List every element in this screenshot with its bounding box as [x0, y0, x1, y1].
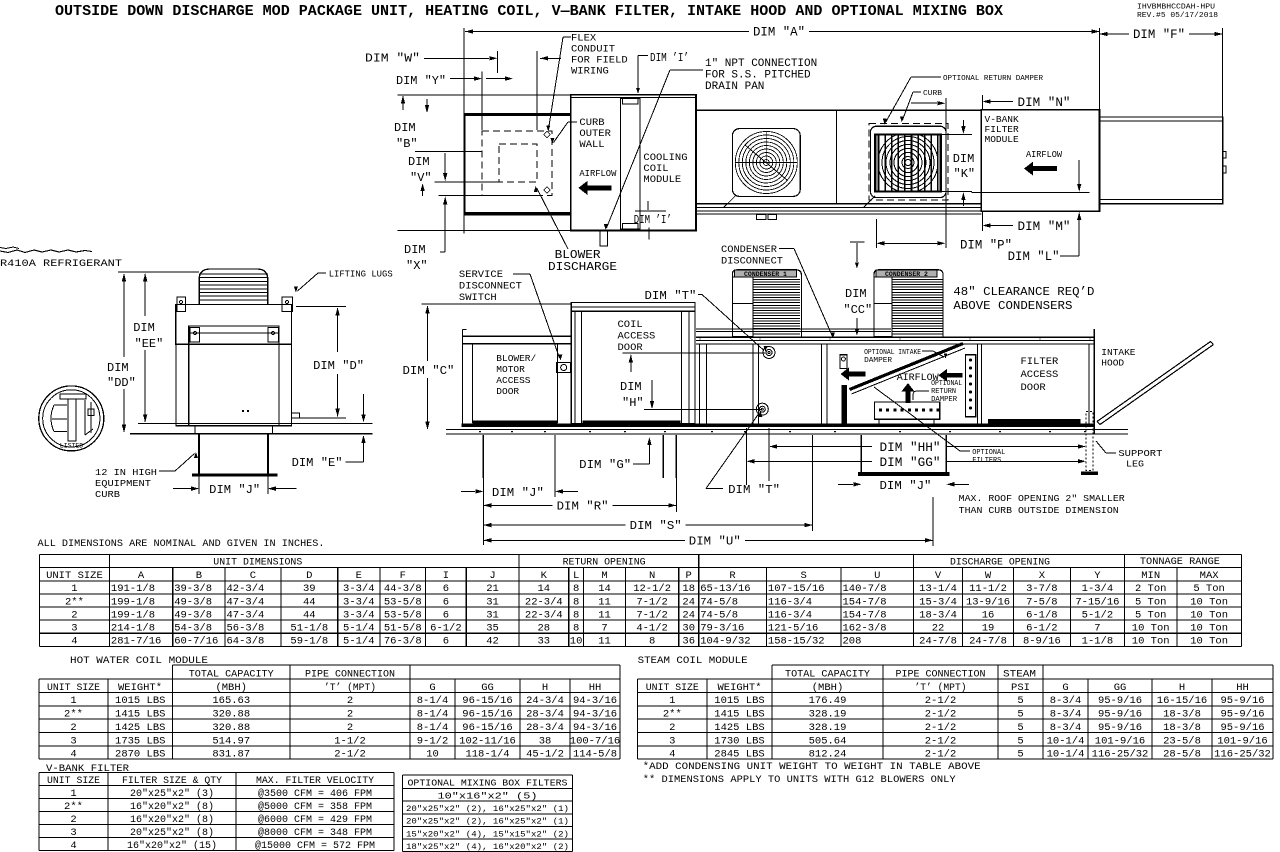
svg-text:3: 3: [71, 622, 77, 634]
svg-text:DISCHARGE: DISCHARGE: [548, 261, 617, 274]
svg-text:154-7/8: 154-7/8: [843, 609, 887, 621]
svg-text:Y: Y: [1094, 570, 1101, 582]
svg-text:5: 5: [1017, 722, 1023, 734]
svg-text:65-13/16: 65-13/16: [700, 583, 750, 595]
svg-text:WEIGHT*: WEIGHT*: [718, 682, 762, 694]
top view: dim N: [981, 95, 983, 110]
svg-text:28: 28: [537, 622, 550, 634]
svg-text:MODULE: MODULE: [985, 134, 1020, 145]
svg-text:116-3/4: 116-3/4: [768, 596, 812, 608]
top view: dim K: [941, 134, 972, 136]
svg-text:95-9/16: 95-9/16: [1220, 709, 1264, 721]
svg-text:101-9/16: 101-9/16: [1217, 735, 1267, 747]
svg-text:DIM ″GG″: DIM ″GG″: [880, 456, 941, 470]
svg-text:4-1/2: 4-1/2: [636, 622, 668, 634]
svg-text:TOTAL CAPACITY: TOTAL CAPACITY: [785, 668, 871, 680]
svg-text:UNIT SIZE: UNIT SIZE: [47, 682, 100, 694]
svg-text:505.64: 505.64: [809, 735, 847, 747]
svg-text:24: 24: [682, 609, 695, 621]
top view: dim B: [398, 94, 571, 96]
svg-text:PIPE CONNECTION: PIPE CONNECTION: [305, 668, 395, 680]
svg-text:2: 2: [70, 814, 76, 826]
svg-text:DIM: DIM: [408, 155, 430, 169]
svg-text:CONDENSER: CONDENSER: [721, 244, 778, 256]
svg-text:22-3/4: 22-3/4: [525, 596, 563, 608]
svg-text:THAN CURB OUTSIDE DIMENSION: THAN CURB OUTSIDE DIMENSION: [959, 505, 1119, 516]
svg-text:J: J: [489, 570, 495, 582]
top view: flex conduit diamonds: [544, 131, 551, 138]
end view: curb base plate: [192, 473, 277, 476]
top view: dim X: [439, 194, 540, 196]
svg-text:U: U: [874, 570, 880, 582]
svg-text:59-1/8: 59-1/8: [290, 635, 328, 647]
svg-text:214-1/8: 214-1/8: [111, 622, 155, 634]
svg-text:38: 38: [539, 735, 552, 747]
side view: grommet 1: [763, 347, 775, 359]
top view: main unit body: [696, 110, 981, 203]
svg-text:10: 10: [426, 749, 439, 761]
svg-text:DIM: DIM: [620, 380, 642, 394]
svg-text:DIM ″J″: DIM ″J″: [492, 486, 544, 500]
svg-text:96-15/16: 96-15/16: [462, 695, 512, 707]
svg-text:5-1/4: 5-1/4: [343, 622, 375, 634]
svg-text:HOOD: HOOD: [1101, 358, 1124, 369]
svg-text:SERVICE: SERVICE: [459, 269, 503, 281]
svg-text:DIM "F": DIM "F": [1133, 28, 1185, 42]
svg-text:CURB: CURB: [95, 489, 120, 500]
svg-text:@5000 CFM = 358 FPM: @5000 CFM = 358 FPM: [258, 801, 372, 813]
svg-text:1730 LBS: 1730 LBS: [714, 735, 764, 747]
svg-text:6: 6: [443, 635, 449, 647]
svg-text:L: L: [573, 570, 579, 582]
svg-text:TONNAGE RANGE: TONNAGE RANGE: [1140, 556, 1220, 568]
svg-text:54-3/8: 54-3/8: [174, 622, 212, 634]
svg-text:DISCONNECT: DISCONNECT: [721, 256, 783, 268]
svg-text:320.88: 320.88: [212, 709, 250, 721]
svg-text:21: 21: [486, 583, 499, 595]
svg-text:8-1/4: 8-1/4: [417, 722, 449, 734]
svg-text:FILTER: FILTER: [1021, 356, 1060, 368]
svg-text:76-3/8: 76-3/8: [384, 635, 422, 647]
svg-text:HH: HH: [589, 682, 602, 694]
svg-text:48″ CLEARANCE REQ’D: 48″ CLEARANCE REQ’D: [953, 286, 1094, 299]
svg-text:44: 44: [303, 609, 316, 621]
svg-text:3: 3: [669, 735, 675, 747]
svg-text:10 Ton: 10 Ton: [1190, 635, 1228, 647]
svg-text:3: 3: [70, 827, 76, 839]
svg-text:8: 8: [573, 622, 579, 634]
svg-text:DIM ″J″: DIM ″J″: [209, 483, 260, 497]
svg-text:1: 1: [70, 788, 76, 800]
top view: drain stubs: [757, 215, 766, 220]
svg-text:158-15/32: 158-15/32: [768, 635, 825, 647]
svg-text:UNIT SIZE: UNIT SIZE: [646, 682, 699, 694]
svg-text:199-1/8: 199-1/8: [111, 609, 155, 621]
svg-text:R: R: [729, 570, 736, 582]
svg-text:** DIMENSIONS APPLY TO UNITS W: ** DIMENSIONS APPLY TO UNITS WITH G12 BL…: [643, 774, 957, 786]
svg-text:2: 2: [669, 722, 675, 734]
svg-text:116-25/32: 116-25/32: [1214, 749, 1271, 761]
svg-text:IHVBMBHCCDAH-HPU: IHVBMBHCCDAH-HPU: [1137, 4, 1215, 12]
svg-text:DIM: DIM: [394, 121, 416, 135]
end view: dim DD: [123, 274, 125, 357]
svg-text:19: 19: [982, 622, 995, 634]
top view: dim A dimension line: [463, 28, 465, 233]
svg-text:SWITCH: SWITCH: [459, 292, 497, 304]
svg-text:D: D: [306, 570, 312, 582]
svg-text:X: X: [1039, 570, 1046, 582]
svg-text:ACCESS: ACCESS: [618, 331, 656, 343]
svg-text:2845 LBS: 2845 LBS: [714, 749, 764, 761]
svg-text:2: 2: [347, 709, 353, 721]
svg-text:DIM ″P″: DIM ″P″: [960, 239, 1012, 253]
svg-text:94-3/16: 94-3/16: [573, 722, 617, 734]
end view: dim EE: [118, 271, 199, 273]
svg-text:1425 LBS: 1425 LBS: [714, 722, 764, 734]
svg-text:10 Ton: 10 Ton: [1190, 622, 1228, 634]
svg-text:LISTED: LISTED: [60, 443, 84, 450]
side view: roof rail lines: [446, 428, 1128, 430]
side view: v-bank diagonal: [850, 344, 964, 390]
svg-text:812.24: 812.24: [809, 749, 847, 761]
svg-text:5-1/4: 5-1/4: [343, 635, 375, 647]
side view: curb legs below: [482, 435, 484, 478]
svg-text:OPTIONAL: OPTIONAL: [931, 380, 962, 388]
svg-text:″DD″: ″DD″: [107, 376, 136, 390]
svg-text:4: 4: [70, 749, 76, 761]
svg-text:6: 6: [443, 583, 449, 595]
svg-text:28-5/8: 28-5/8: [1163, 749, 1201, 761]
svg-text:1: 1: [70, 695, 76, 707]
svg-text:MOTOR: MOTOR: [496, 364, 525, 375]
svg-text:49-3/8: 49-3/8: [174, 609, 212, 621]
top view: dim M: [981, 211, 983, 231]
svg-text:1015 LBS: 1015 LBS: [115, 695, 165, 707]
svg-text:39: 39: [303, 583, 316, 595]
svg-text:R410A REFRIGERANT: R410A REFRIGERANT: [0, 258, 122, 270]
side view: v-bank left bar: [842, 385, 847, 427]
svg-text:DOOR: DOOR: [1021, 382, 1047, 394]
svg-text:42: 42: [486, 635, 499, 647]
svg-text:REV.#5 05/17/2018: REV.#5 05/17/2018: [1137, 12, 1218, 20]
svg-text:6-1/2: 6-1/2: [1026, 622, 1058, 634]
side view: condenser disconnect box: [840, 355, 847, 369]
svg-text:DIM ″G″: DIM ″G″: [579, 458, 631, 472]
svg-text:H: H: [542, 682, 548, 694]
svg-text:DIM ″T″: DIM ″T″: [728, 483, 780, 497]
svg-text:10 Ton: 10 Ton: [1132, 635, 1170, 647]
svg-text:79-3/16: 79-3/16: [700, 622, 744, 634]
top view: intake hood (plan): [1100, 117, 1223, 204]
svg-text:H: H: [1179, 682, 1185, 694]
side view: dim HH: [768, 428, 770, 481]
svg-text:95-9/16: 95-9/16: [1098, 709, 1142, 721]
svg-text:PSI: PSI: [1011, 682, 1030, 694]
svg-text:″H″: ″H″: [622, 396, 644, 410]
svg-text:M: M: [601, 570, 607, 582]
svg-text:DIM ″D″: DIM ″D″: [313, 359, 364, 373]
svg-text:CURB: CURB: [923, 90, 943, 98]
svg-text:DIM "A": DIM "A": [753, 26, 805, 40]
svg-text:24-3/4: 24-3/4: [526, 695, 564, 707]
side view: dim R: [675, 478, 677, 512]
svg-text:18″x25″x2″ (4), 16″x20″x2″ (2): 18″x25″x2″ (4), 16″x20″x2″ (2): [406, 842, 569, 852]
svg-text:DOOR: DOOR: [496, 386, 519, 397]
svg-text:INTAKE: INTAKE: [1101, 347, 1136, 358]
side view: intake hood side: [1093, 329, 1095, 434]
svg-text:31: 31: [486, 609, 499, 621]
svg-text:16: 16: [982, 609, 995, 621]
svg-text:UNIT SIZE: UNIT SIZE: [47, 775, 100, 787]
svg-text:33: 33: [537, 635, 550, 647]
svg-text:47-3/4: 47-3/4: [227, 596, 265, 608]
svg-text:44: 44: [303, 596, 316, 608]
svg-text:W: W: [985, 570, 992, 582]
svg-text:514.97: 514.97: [212, 735, 250, 747]
svg-text:1″ NPT CONNECTION: 1″ NPT CONNECTION: [705, 58, 817, 70]
end view: side tab: [292, 413, 300, 418]
side view: condenser 1: [732, 270, 801, 337]
svg-text:10 Ton: 10 Ton: [1190, 609, 1228, 621]
svg-text:2**: 2**: [64, 709, 83, 721]
top view: small curb dim: [911, 102, 937, 104]
svg-text:7-1/2: 7-1/2: [636, 609, 668, 621]
svg-text:STEAM: STEAM: [1003, 668, 1036, 680]
top view: curb dashed inner opening: [499, 144, 537, 182]
svg-text:47-3/4: 47-3/4: [227, 609, 265, 621]
svg-text:53-5/8: 53-5/8: [384, 609, 422, 621]
side view: right sections top band: [696, 336, 1094, 338]
svg-text:OPTIONAL INTAKE: OPTIONAL INTAKE: [864, 349, 921, 357]
svg-text:2-1/2: 2-1/2: [925, 735, 957, 747]
svg-text:OPTIONAL RETURN DAMPER: OPTIONAL RETURN DAMPER: [943, 75, 1043, 83]
top view: cooling coil slab: [621, 98, 640, 229]
svg-text:45-1/2: 45-1/2: [526, 749, 564, 761]
side view: dim U: [932, 497, 934, 546]
svg-text:1: 1: [669, 695, 675, 707]
end view: top box: [176, 305, 292, 345]
svg-text:1425 LBS: 1425 LBS: [115, 722, 165, 734]
svg-text:10: 10: [570, 635, 583, 647]
svg-text:8: 8: [649, 635, 655, 647]
svg-text:30: 30: [682, 622, 695, 634]
svg-text:7-5/8: 7-5/8: [1026, 596, 1058, 608]
svg-text:12 IN HIGH: 12 IN HIGH: [95, 467, 157, 478]
svg-text:PIPE CONNECTION: PIPE CONNECTION: [896, 668, 986, 680]
svg-text:8: 8: [573, 596, 579, 608]
svg-text:2**: 2**: [64, 801, 83, 813]
svg-text:154-7/8: 154-7/8: [843, 596, 887, 608]
end view: lug mid-right: [268, 328, 279, 342]
svg-text:16-15/16: 16-15/16: [1157, 695, 1207, 707]
side view: filter door bottom thick: [988, 419, 1081, 424]
svg-text:208: 208: [843, 635, 862, 647]
svg-text:199-1/8: 199-1/8: [111, 596, 155, 608]
svg-text:42-3/4: 42-3/4: [227, 583, 265, 595]
svg-text:102-11/16: 102-11/16: [459, 735, 516, 747]
svg-text:ACCESS: ACCESS: [496, 375, 531, 386]
top view: dim L: [1078, 160, 1080, 186]
svg-text:5-1/2: 5-1/2: [1082, 609, 1114, 621]
svg-text:2 Ton: 2 Ton: [1135, 583, 1167, 595]
svg-text:3-3/4: 3-3/4: [343, 609, 375, 621]
svg-text:MAX. ROOF OPENING 2″ SMALLER: MAX. ROOF OPENING 2″ SMALLER: [959, 493, 1125, 504]
svg-text:107-15/16: 107-15/16: [768, 583, 825, 595]
svg-text:DISCHARGE OPENING: DISCHARGE OPENING: [950, 557, 1050, 569]
svg-text:20″x25″x2″ (2), 16″x25″x2″ (1): 20″x25″x2″ (2), 16″x25″x2″ (1): [406, 804, 569, 814]
svg-text:*ADD CONDENSING UNIT WEIGHT TO: *ADD CONDENSING UNIT WEIGHT TO WEIGHT IN…: [643, 761, 981, 773]
svg-text:BLOWER/: BLOWER/: [496, 353, 536, 364]
svg-text:AIRFLOW: AIRFLOW: [579, 168, 616, 179]
svg-text:328.19: 328.19: [809, 722, 847, 734]
svg-text:DIM ″E″: DIM ″E″: [292, 456, 343, 470]
svg-text:1-3/4: 1-3/4: [1082, 583, 1114, 595]
svg-text:FILTER SIZE & QTY: FILTER SIZE & QTY: [122, 775, 223, 787]
svg-text:2: 2: [70, 722, 76, 734]
svg-text:@6000 CFM = 429 FPM: @6000 CFM = 429 FPM: [258, 814, 372, 826]
svg-text:24: 24: [682, 596, 695, 608]
svg-text:6: 6: [443, 596, 449, 608]
svg-text:DIM: DIM: [107, 361, 129, 375]
svg-text:18-3/8: 18-3/8: [1163, 709, 1201, 721]
svg-text:DIM ″S″: DIM ″S″: [630, 519, 682, 533]
svg-text:1735 LBS: 1735 LBS: [115, 735, 165, 747]
svg-text:9-1/2: 9-1/2: [417, 735, 449, 747]
svg-text:22: 22: [932, 622, 945, 634]
svg-text:6: 6: [443, 609, 449, 621]
svg-text:P: P: [686, 570, 692, 582]
svg-text:8-3/4: 8-3/4: [1050, 695, 1082, 707]
side view: dim J left (bottom chain): [482, 435, 484, 545]
svg-text:DIM ″HH″: DIM ″HH″: [880, 441, 941, 455]
svg-text:5: 5: [1017, 695, 1023, 707]
svg-text:UNIT SIZE: UNIT SIZE: [46, 570, 103, 582]
svg-text:95-9/16: 95-9/16: [1220, 695, 1264, 707]
svg-text:1: 1: [71, 583, 77, 595]
svg-text:2-1/2: 2-1/2: [334, 749, 366, 761]
svg-text:DAMPER: DAMPER: [864, 357, 893, 365]
svg-text:7: 7: [601, 622, 607, 634]
svg-text:95-9/16: 95-9/16: [1220, 722, 1264, 734]
side view: rivet dots: [479, 431, 481, 433]
svg-text:94-3/16: 94-3/16: [573, 695, 617, 707]
svg-text:WALL: WALL: [579, 139, 604, 151]
svg-text:UNIT DIMENSIONS: UNIT DIMENSIONS: [213, 557, 302, 569]
svg-text:5 Ton: 5 Ton: [1135, 609, 1167, 621]
svg-text:328.19: 328.19: [809, 709, 847, 721]
svg-text:2-1/2: 2-1/2: [925, 709, 957, 721]
svg-text:11: 11: [598, 609, 611, 621]
svg-text:94-3/16: 94-3/16: [573, 709, 617, 721]
svg-text:TOTAL CAPACITY: TOTAL CAPACITY: [189, 668, 275, 680]
svg-text:165.63: 165.63: [212, 695, 250, 707]
svg-text:DIM ″U″: DIM ″U″: [689, 534, 741, 548]
svg-text:6-1/8: 6-1/8: [1026, 609, 1058, 621]
svg-text:1015 LBS: 1015 LBS: [714, 695, 764, 707]
svg-text:31: 31: [486, 596, 499, 608]
svg-text:15″x20″x2″ (4), 15″x15″x2″ (2): 15″x20″x2″ (4), 15″x15″x2″ (2): [406, 829, 569, 839]
end view: dim D: [296, 305, 346, 307]
svg-text:191-1/8: 191-1/8: [111, 583, 155, 595]
svg-text:23-5/8: 23-5/8: [1163, 735, 1201, 747]
svg-text:C: C: [250, 570, 256, 582]
top view: dim V: [415, 151, 483, 153]
svg-text:’T’ (MPT): ’T’ (MPT): [915, 682, 967, 694]
svg-text:96-15/16: 96-15/16: [462, 709, 512, 721]
svg-text:DIM ″N″: DIM ″N″: [1018, 96, 1071, 110]
ETL listed logo: [39, 386, 104, 451]
svg-text:2-1/2: 2-1/2: [925, 695, 957, 707]
svg-text:N: N: [649, 570, 655, 582]
svg-text:F: F: [400, 570, 406, 582]
svg-text:FOR S.S. PITCHED: FOR S.S. PITCHED: [705, 70, 811, 82]
side view: condenser 2: [874, 270, 943, 337]
svg-text:S: S: [801, 570, 807, 582]
svg-text:DIM ″R″: DIM ″R″: [557, 499, 609, 513]
svg-text:11-1/2: 11-1/2: [969, 583, 1007, 595]
top view: curb box (thick): [464, 113, 571, 116]
svg-text:74-5/8: 74-5/8: [700, 609, 738, 621]
svg-text:2: 2: [347, 722, 353, 734]
top view: dim P: [875, 219, 877, 248]
svg-text:RETURN: RETURN: [931, 388, 956, 396]
svg-text:″EE″: ″EE″: [135, 337, 164, 351]
svg-text:G: G: [429, 682, 435, 694]
svg-text:24-7/8: 24-7/8: [969, 635, 1007, 647]
svg-text:AIRFLOW: AIRFLOW: [1026, 149, 1062, 160]
svg-text:G: G: [1062, 682, 1068, 694]
svg-text:118-1/4: 118-1/4: [465, 749, 509, 761]
svg-text:10-1/4: 10-1/4: [1047, 735, 1085, 747]
svg-text:281-7/16: 281-7/16: [111, 635, 161, 647]
svg-text:1415 LBS: 1415 LBS: [115, 709, 165, 721]
end view: lifting lug top-right: [282, 297, 292, 312]
end view: lug mid-left: [190, 328, 200, 342]
top view: condenser fan 1: [732, 129, 800, 197]
end view: dim E: [363, 394, 365, 421]
svg-text:8-1/4: 8-1/4: [417, 709, 449, 721]
svg-text:WIRING: WIRING: [571, 66, 609, 78]
end view: inner box: [189, 326, 279, 426]
svg-text:56-3/8: 56-3/8: [227, 622, 265, 634]
svg-text:8-9/16: 8-9/16: [1023, 635, 1061, 647]
top view: curb dashed outer opening: [482, 131, 552, 195]
svg-text:60-7/16: 60-7/16: [174, 635, 218, 647]
svg-text:1-1/8: 1-1/8: [1082, 635, 1114, 647]
svg-text:DIM: DIM: [133, 321, 155, 335]
svg-text:2870 LBS: 2870 LBS: [115, 749, 165, 761]
svg-text:5: 5: [1017, 749, 1023, 761]
side view: grommet 2: [756, 403, 768, 415]
svg-text:SUPPORT: SUPPORT: [1118, 448, 1162, 459]
svg-text:51-5/8: 51-5/8: [384, 622, 422, 634]
svg-text:OPTIONAL MIXING BOX FILTERS: OPTIONAL MIXING BOX FILTERS: [408, 778, 568, 789]
svg-text:2-1/2: 2-1/2: [925, 749, 957, 761]
side view: coil section: [571, 311, 695, 424]
svg-text:K: K: [541, 570, 548, 582]
end view: roof lines: [138, 423, 372, 425]
end view: break line: [0, 250, 92, 253]
side view: dim J right: [838, 483, 853, 485]
svg-text:7-1/2: 7-1/2: [636, 596, 668, 608]
svg-text:2**: 2**: [663, 709, 682, 721]
top view: label dim I bottom: [647, 201, 649, 210]
svg-text:E: E: [356, 570, 362, 582]
svg-text:8: 8: [573, 583, 579, 595]
svg-text:96-15/16: 96-15/16: [462, 722, 512, 734]
svg-text:RETURN OPENING: RETURN OPENING: [563, 557, 646, 569]
svg-text:5: 5: [1017, 735, 1023, 747]
